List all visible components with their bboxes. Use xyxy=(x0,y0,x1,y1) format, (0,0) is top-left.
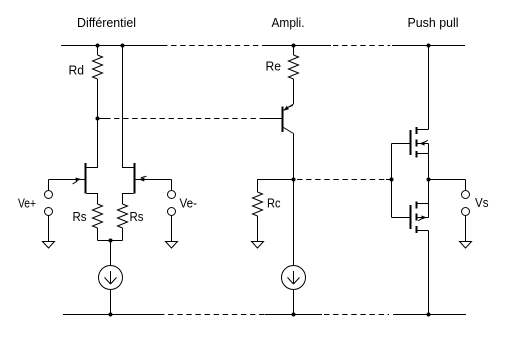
wire Re top lead xyxy=(293,46,295,56)
transistor M2 bulk arrow xyxy=(422,215,427,219)
transistor Q2 gate arrow tick xyxy=(141,176,147,177)
port Ve+ terminal circle xyxy=(45,191,53,199)
port Vs ground terminal circle xyxy=(462,208,470,216)
transistor Q1 gate arrow tick xyxy=(73,181,78,184)
port Vs terminal circle xyxy=(462,191,470,199)
wire bottom rail dashed segment 1 xyxy=(159,314,265,316)
resistor Rs left xyxy=(93,204,103,228)
wire bottom rail solid left segment xyxy=(63,314,159,316)
resistor Rc xyxy=(253,192,263,216)
transistor M2 channel bottom segment xyxy=(416,226,418,233)
transistor M2 bulk arrow tick xyxy=(418,219,421,221)
junction dot top rail at Re xyxy=(292,44,296,48)
wire sources node to current source I1 xyxy=(110,241,112,266)
ground at Ve- xyxy=(166,242,178,249)
wire bottom rail solid right segment xyxy=(393,314,466,316)
wire top rail dashed segment 1 xyxy=(162,45,264,47)
transistor Q2 source wire xyxy=(123,194,134,205)
svg-text:Ve+: Ve+ xyxy=(18,196,36,211)
port Ve+ ground wire xyxy=(48,216,50,242)
wire current source I2 to bottom rail xyxy=(293,290,295,315)
wire top rail solid right segment xyxy=(392,45,465,47)
resistor Rs right xyxy=(118,204,128,228)
wire top rail solid left segment xyxy=(61,45,162,47)
transistor M2 channel top segment xyxy=(416,202,418,209)
svg-text:Rd: Rd xyxy=(69,63,85,78)
transistor M1 drain lead xyxy=(417,129,429,131)
wire top rail dashed segment 2 xyxy=(333,45,390,47)
junction dot bottom rail at push-pull xyxy=(427,313,431,317)
transistor M1 channel top segment xyxy=(416,127,418,134)
transistor M1 NMOS gate bar xyxy=(410,130,412,155)
transistor M1 bulk lead xyxy=(418,143,429,145)
transistor M2 drain lead xyxy=(418,230,429,232)
wire Rs left bottom xyxy=(97,228,99,241)
transistor Q2 gate arrow xyxy=(139,178,145,182)
svg-text:Rs: Rs xyxy=(73,209,87,224)
wire node B1 first dash xyxy=(98,118,111,120)
port Ve+ wire from gate xyxy=(48,180,50,191)
svg-text:Ve-: Ve- xyxy=(180,196,198,211)
wire lower gate lead xyxy=(392,217,410,219)
port Ve- wire from gate xyxy=(171,180,173,191)
transistor M2 PMOS gate bar xyxy=(410,205,412,229)
wire right JFET drain to top rail xyxy=(123,46,134,168)
transistor Q1 left JFET bar xyxy=(85,163,87,194)
transistor Q3 emitter arrow tick xyxy=(289,105,293,107)
resistor Rd xyxy=(93,55,103,79)
transistor M1 bulk arrow xyxy=(420,141,425,145)
wire gate trunk xyxy=(391,144,393,218)
ground at Rc xyxy=(252,242,264,249)
port Ve+ ground terminal circle xyxy=(45,208,53,216)
wire push pull drain to top rail xyxy=(428,46,430,130)
svg-text:Différentiel: Différentiel xyxy=(77,15,136,30)
transistor Q1 source wire xyxy=(87,194,98,205)
port Ve- ground terminal circle xyxy=(168,208,176,216)
wire M1 source-bulk tie down to output node xyxy=(428,144,430,180)
transistor M2 source lead xyxy=(418,203,429,205)
transistor Q2 gate wire xyxy=(136,179,172,181)
wire gate node solid stub xyxy=(386,179,392,181)
svg-text:Rc: Rc xyxy=(267,196,281,211)
junction dot gate trunk xyxy=(390,178,394,182)
svg-text:Ampli.: Ampli. xyxy=(272,15,305,30)
wire BJT collector to node C xyxy=(293,134,295,180)
transistor M1 source lead xyxy=(418,153,429,155)
port Ve- terminal circle xyxy=(168,191,176,199)
wire top rail solid middle segment xyxy=(264,45,331,47)
wire Rs right bottom xyxy=(122,228,124,241)
transistor Q3 collector diagonal xyxy=(284,128,294,134)
wire Rs join horizontal xyxy=(98,240,123,242)
transistor M2 bulk lead xyxy=(418,217,429,219)
transistor M1 channel middle segment xyxy=(416,140,418,147)
transistor M1 channel bottom segment xyxy=(416,151,418,158)
wire Rd top lead xyxy=(97,46,99,56)
wire bottom rail dashed segment 2 xyxy=(324,314,389,316)
port Ve- ground wire xyxy=(171,216,173,242)
ground at Ve+ xyxy=(43,242,55,249)
wire current source I1 to bottom rail xyxy=(110,290,112,315)
junction dot top rail at right JFET drain xyxy=(121,44,125,48)
port Vs ground wire xyxy=(465,216,467,242)
svg-text:Vs: Vs xyxy=(475,195,489,210)
svg-text:Push pull: Push pull xyxy=(408,15,459,30)
junction dot bottom rail at I1 xyxy=(109,313,113,317)
transistor Q3 emitter arrow xyxy=(284,106,289,111)
port Vs wire xyxy=(465,180,467,191)
current source I1 xyxy=(99,266,123,290)
junction dot bottom rail at I2 xyxy=(292,313,296,317)
transistor Q3 emitter diagonal xyxy=(284,104,294,110)
transistor Q3 PNP bar xyxy=(282,107,284,133)
svg-text:Rs: Rs xyxy=(130,209,144,224)
junction dot top rail at push-pull xyxy=(427,44,431,48)
junction dot node C xyxy=(292,178,296,182)
transistor Q1 gate wire xyxy=(49,179,85,181)
junction dot sources node xyxy=(109,239,113,243)
wire Rd bottom to left JFET drain xyxy=(87,79,98,168)
current source I2 xyxy=(282,266,306,290)
ground at Vs xyxy=(460,242,472,249)
wire node C to current source I2 xyxy=(293,180,295,266)
wire output node to Vs xyxy=(429,179,466,181)
junction dot output node xyxy=(427,178,431,182)
wire Rc bottom xyxy=(257,216,259,242)
transistor Q2 right JFET bar xyxy=(134,163,136,194)
svg-text:Re: Re xyxy=(266,59,282,74)
wire upper gate lead xyxy=(392,143,410,145)
wire M2 bulk tie xyxy=(428,204,430,218)
wire dashed node C to push pull gates xyxy=(297,179,386,181)
transistor Q1 gate arrow xyxy=(76,178,82,182)
wire dashed node B1 to BJT base xyxy=(114,118,261,120)
wire M2 drain to bottom rail xyxy=(428,231,430,315)
wire Re bottom to BJT emitter xyxy=(293,79,295,104)
junction dot node B1 xyxy=(96,117,100,121)
transistor M1 bulk arrow tick xyxy=(425,140,428,142)
resistor Re xyxy=(289,55,299,79)
transistor M2 channel middle segment xyxy=(416,214,418,221)
wire output node to M2 source xyxy=(428,180,430,204)
wire node C to Rc xyxy=(258,180,294,193)
wire bottom rail solid middle segment xyxy=(265,314,322,316)
wire BJT base solid segment xyxy=(261,118,282,120)
junction dot top rail at Rd xyxy=(96,44,100,48)
